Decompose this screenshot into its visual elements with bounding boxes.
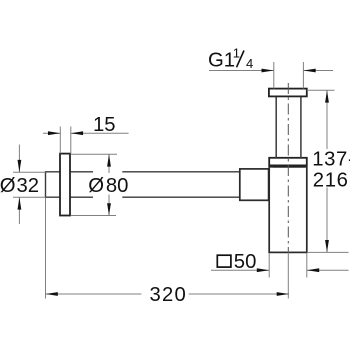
svg-text:32: 32 <box>17 175 40 197</box>
dimension Ø32 <box>13 145 46 225</box>
dimension Ø80 <box>71 154 117 215</box>
svg-text:4: 4 <box>246 56 253 71</box>
trap body <box>269 167 307 253</box>
horizontal inlet pipe <box>46 171 240 198</box>
dimension 137-216 <box>307 90 349 252</box>
svg-text:1: 1 <box>233 46 240 61</box>
collar joint band <box>273 165 305 167</box>
svg-text:15: 15 <box>93 114 116 136</box>
svg-text:320: 320 <box>150 284 187 306</box>
center line <box>287 83 289 252</box>
vertical tube <box>276 96 301 157</box>
svg-text:G1: G1 <box>208 50 235 72</box>
dimension 320 <box>46 198 290 299</box>
dimension 15 <box>43 127 129 154</box>
dimension square50 <box>211 253 349 278</box>
svg-text:Ø: Ø <box>0 175 16 197</box>
svg-text:Ø: Ø <box>88 175 104 197</box>
collar (slip nut) <box>269 158 307 166</box>
wall flange <box>60 154 70 216</box>
svg-text:137-: 137- <box>312 149 350 171</box>
top flange <box>269 89 307 97</box>
compression nut <box>240 169 269 200</box>
dimension G1 1/4 <box>209 62 333 89</box>
svg-text:80: 80 <box>106 175 129 197</box>
svg-text:50: 50 <box>234 251 257 273</box>
svg-text:216: 216 <box>313 170 349 192</box>
